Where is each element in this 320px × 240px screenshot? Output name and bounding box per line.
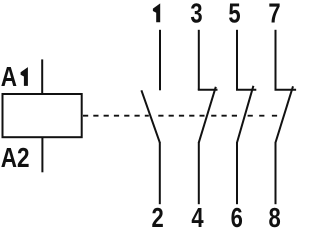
svg-text:3: 3 xyxy=(190,0,202,29)
svg-text:2: 2 xyxy=(151,203,163,230)
svg-text:A: A xyxy=(1,62,17,93)
svg-text:7: 7 xyxy=(268,0,280,29)
svg-text:4: 4 xyxy=(191,203,203,230)
svg-text:5: 5 xyxy=(228,0,240,29)
svg-text:A2: A2 xyxy=(1,143,30,174)
svg-text:6: 6 xyxy=(231,203,243,230)
svg-text:8: 8 xyxy=(268,203,280,230)
